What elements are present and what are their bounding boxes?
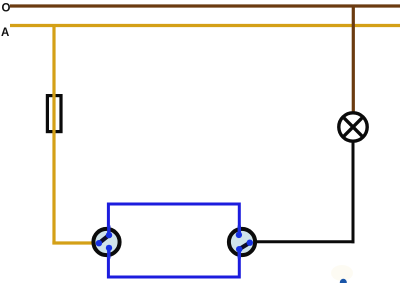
svg-text:O: O [2,3,11,15]
svg-text:A: A [1,27,9,39]
